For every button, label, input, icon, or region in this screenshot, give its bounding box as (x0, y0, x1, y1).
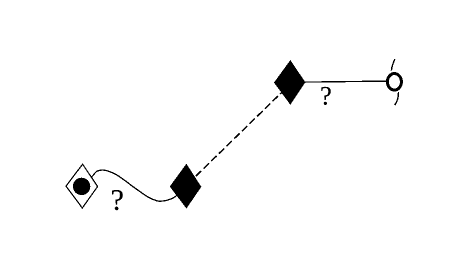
wavy bond (unknown linkage) between white diamond and diamond 1 (82, 170, 186, 201)
reducing end circle (387, 74, 401, 91)
dashed bond between diamond 1 and diamond 2 (186, 85, 290, 186)
label ? (right linkage) (321, 87, 330, 105)
solid bond between diamond 2 and reducing end (290, 81, 395, 82)
black dot inside white diamond (73, 178, 90, 195)
white diamond residue (outline) (66, 164, 98, 208)
label ? (left linkage) (112, 190, 122, 210)
filled diamond residue 2 (274, 60, 305, 105)
filled diamond residue 1 (170, 164, 202, 209)
reducing end top bracket arc (391, 59, 395, 70)
reducing end bottom bracket arc (395, 92, 399, 105)
